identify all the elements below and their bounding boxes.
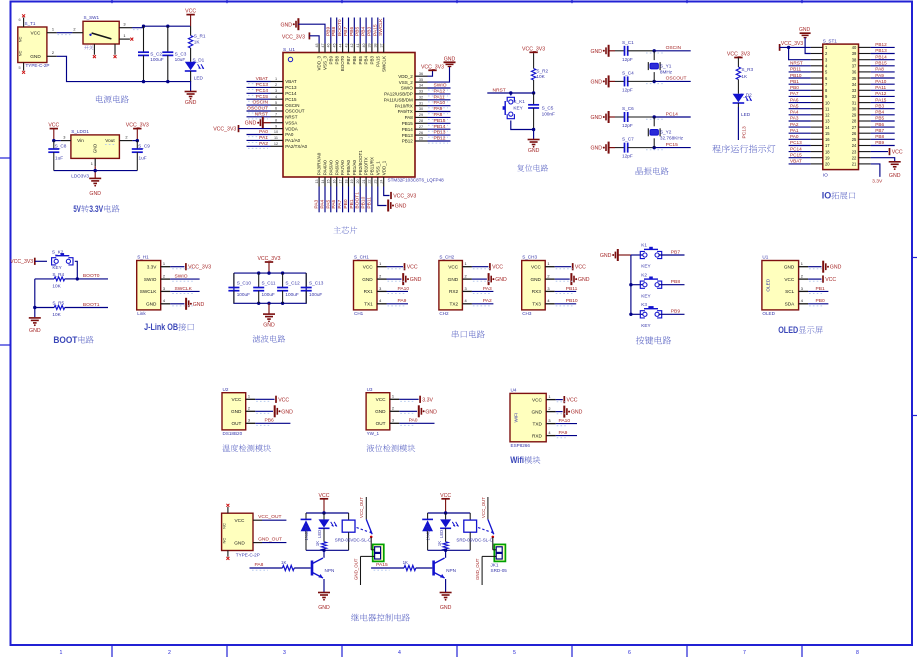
svg-text:43: 43 (344, 44, 348, 48)
svg-text:GND: GND (375, 409, 386, 414)
svg-text:S_Y2: S_Y2 (660, 130, 672, 135)
svg-text:PA9: PA9 (875, 73, 884, 78)
svg-text:PC13: PC13 (256, 82, 269, 88)
svg-text:VDDA: VDDA (285, 126, 298, 131)
svg-text:DS18B20: DS18B20 (223, 431, 243, 436)
svg-text:STM32F103C8T6_LQFP48: STM32F103C8T6_LQFP48 (388, 178, 445, 183)
svg-text:25: 25 (419, 137, 423, 141)
svg-text:PB7: PB7 (343, 26, 349, 36)
svg-text:SWIO: SWIO (144, 277, 157, 282)
svg-text:TX1: TX1 (364, 301, 373, 306)
svg-text:PC13: PC13 (285, 85, 297, 90)
svg-text:TXD: TXD (533, 421, 543, 426)
svg-text:S_C5: S_C5 (542, 105, 554, 110)
svg-text:PB7: PB7 (671, 249, 681, 255)
svg-text:44: 44 (338, 44, 342, 48)
svg-text:2: 2 (73, 27, 75, 32)
svg-text:1K: 1K (281, 560, 286, 565)
svg-text:S_R1: S_R1 (194, 33, 206, 38)
svg-text:PA1: PA1 (790, 128, 799, 133)
svg-text:PA3: PA3 (483, 286, 492, 292)
svg-text:4: 4 (547, 298, 550, 303)
svg-text:PA7/A0: PA7/A0 (340, 160, 345, 175)
svg-text:Link: Link (137, 311, 146, 316)
svg-text:4: 4 (465, 298, 468, 303)
svg-text:VCC: VCC (319, 493, 330, 499)
svg-text:VCC_3V3: VCC_3V3 (126, 123, 149, 129)
svg-text:PB9: PB9 (328, 56, 333, 65)
svg-text:KEY: KEY (641, 293, 651, 298)
svg-text:S_C3: S_C3 (175, 52, 187, 57)
svg-text:VCC: VCC (532, 397, 543, 402)
svg-text:PA8: PA8 (405, 115, 414, 120)
svg-text:26: 26 (419, 131, 423, 135)
svg-text:S_R2: S_R2 (536, 68, 548, 73)
svg-text:KEY: KEY (513, 106, 523, 111)
svg-text:S_C9: S_C9 (138, 143, 150, 148)
svg-text:PC13: PC13 (790, 140, 802, 145)
svg-text:3: 3 (163, 286, 165, 291)
svg-text:10uF: 10uF (175, 57, 186, 62)
svg-text:VCC: VCC (363, 264, 374, 269)
svg-text:7: 7 (275, 113, 277, 117)
svg-text:37: 37 (852, 64, 857, 69)
svg-text:31: 31 (852, 100, 857, 105)
svg-text:3: 3 (123, 22, 125, 27)
svg-text:GND: GND (590, 49, 602, 55)
svg-text:19: 19 (350, 180, 354, 184)
svg-text:PA5: PA5 (790, 103, 799, 108)
svg-text:3.3V: 3.3V (872, 179, 883, 185)
svg-text:OUT: OUT (231, 421, 241, 426)
svg-text:2: 2 (52, 50, 54, 55)
svg-text:3: 3 (465, 286, 467, 291)
svg-text:29: 29 (419, 113, 423, 117)
svg-text:3: 3 (275, 89, 277, 93)
svg-text:NRST: NRST (790, 61, 803, 66)
svg-text:1: 1 (52, 27, 54, 32)
svg-text:PA4: PA4 (790, 110, 799, 115)
svg-text:1: 1 (163, 261, 165, 266)
svg-text:1: 1 (248, 394, 250, 399)
svg-text:VCC: VCC (31, 30, 42, 35)
svg-text:31: 31 (419, 101, 423, 105)
svg-text:VSS_1: VSS_1 (375, 161, 380, 176)
svg-text:5: 5 (513, 650, 516, 656)
svg-text:2: 2 (168, 650, 171, 656)
svg-text:U4: U4 (511, 388, 517, 393)
svg-text:1: 1 (801, 261, 803, 266)
svg-text:PB5: PB5 (358, 56, 363, 65)
svg-text:VBAT: VBAT (256, 76, 268, 82)
svg-text:OSCIN: OSCIN (253, 100, 269, 106)
svg-text:LED: LED (194, 75, 204, 80)
svg-text:PB12: PB12 (402, 139, 414, 144)
svg-text:VCC_3V3: VCC_3V3 (188, 265, 211, 271)
svg-text:PA5: PA5 (325, 199, 331, 208)
svg-text:PB11: PB11 (366, 197, 372, 209)
svg-text:S_H1: S_H1 (137, 255, 149, 260)
svg-text:14: 14 (825, 125, 830, 130)
svg-text:GND: GND (571, 410, 583, 416)
svg-text:VCC_OUT: VCC_OUT (258, 514, 281, 520)
svg-text:S_T1: S_T1 (25, 21, 36, 26)
svg-text:3: 3 (547, 286, 549, 291)
svg-text:VCC: VCC (784, 277, 795, 282)
svg-text:GND: GND (245, 121, 257, 127)
svg-text:1: 1 (91, 161, 93, 166)
svg-text:100nF: 100nF (542, 112, 555, 117)
svg-text:PB15: PB15 (402, 121, 414, 126)
svg-text:3.3V: 3.3V (147, 264, 158, 269)
svg-text:PB11/RX: PB11/RX (370, 157, 375, 175)
svg-text:PA7: PA7 (790, 91, 799, 96)
svg-text:PB6: PB6 (349, 26, 355, 36)
svg-text:RX1: RX1 (364, 289, 374, 294)
svg-text:PB14: PB14 (434, 124, 446, 130)
svg-text:VCC: VCC (531, 264, 542, 269)
svg-text:VCC: VCC (185, 9, 196, 15)
svg-text:PA9/TX: PA9/TX (398, 109, 413, 114)
svg-text:SRD-05VDC-SL-C: SRD-05VDC-SL-C (456, 538, 492, 543)
svg-text:PB8: PB8 (331, 26, 337, 36)
svg-text:VCC: VCC (376, 397, 387, 402)
svg-text:SWCLK: SWCLK (140, 289, 158, 294)
svg-text:VCC: VCC (567, 398, 578, 404)
svg-text:6: 6 (18, 18, 20, 22)
svg-text:PC14: PC14 (666, 111, 679, 117)
svg-text:20: 20 (356, 180, 360, 184)
svg-text:PB4: PB4 (364, 56, 369, 65)
svg-text:PB6: PB6 (352, 56, 357, 65)
svg-text:10K: 10K (536, 74, 545, 79)
svg-text:1K: 1K (194, 40, 201, 45)
svg-text:BOOT: BOOT (53, 335, 77, 346)
svg-text:42: 42 (350, 44, 354, 48)
svg-text:PB11: PB11 (790, 67, 802, 72)
svg-text:13: 13 (825, 119, 830, 124)
svg-text:NPN: NPN (446, 568, 456, 573)
svg-text:4: 4 (379, 298, 382, 303)
svg-text:S_Y1: S_Y1 (660, 63, 672, 68)
svg-text:100uF: 100uF (262, 292, 275, 297)
svg-text:SWCLK: SWCLK (378, 18, 384, 36)
svg-text:38: 38 (374, 44, 378, 48)
svg-text:LDO3V3: LDO3V3 (71, 174, 89, 179)
svg-text:PA3: PA3 (790, 116, 799, 121)
svg-text:PB1: PB1 (349, 199, 355, 209)
svg-text:PB1/A0: PB1/A0 (352, 159, 357, 175)
svg-text:VSS_2: VSS_2 (399, 80, 414, 85)
svg-text:PB10: PB10 (361, 196, 367, 208)
svg-text:1: 1 (392, 394, 394, 399)
svg-text:PA7: PA7 (337, 199, 343, 208)
svg-text:4: 4 (275, 95, 277, 99)
svg-text:PA4: PA4 (320, 199, 326, 208)
svg-text:VCC_OUT: VCC_OUT (481, 497, 486, 518)
svg-text:VCC_3V3: VCC_3V3 (257, 256, 280, 262)
svg-text:PB10: PB10 (790, 73, 802, 78)
svg-text:OSCOUT: OSCOUT (247, 106, 268, 112)
svg-text:46: 46 (327, 44, 331, 48)
svg-text:PA15: PA15 (875, 97, 887, 102)
svg-text:OLED: OLED (778, 325, 798, 336)
svg-text:VCC_3V3: VCC_3V3 (781, 41, 803, 47)
svg-text:GND: GND (784, 264, 795, 269)
svg-text:PA5/A0: PA5/A0 (328, 160, 333, 175)
svg-text:GND: GND (395, 204, 407, 210)
svg-text:39: 39 (368, 44, 372, 48)
svg-text:KEY: KEY (641, 323, 651, 328)
svg-text:PA8: PA8 (255, 562, 264, 568)
svg-text:5: 5 (18, 66, 20, 70)
svg-text:GND: GND (234, 541, 245, 546)
svg-text:S_R3: S_R3 (741, 67, 753, 72)
svg-text:PB7: PB7 (346, 56, 351, 65)
svg-text:S_C6: S_C6 (622, 106, 634, 111)
svg-text:33: 33 (419, 90, 423, 94)
svg-text:2: 2 (379, 273, 381, 278)
svg-text:30: 30 (419, 107, 423, 111)
svg-text:PB5: PB5 (875, 116, 884, 121)
svg-text:TYPE-C-2P: TYPE-C-2P (26, 63, 50, 68)
svg-text:TX3: TX3 (532, 301, 541, 306)
svg-text:1K: 1K (315, 541, 320, 546)
svg-text:34: 34 (419, 84, 423, 88)
svg-text:PB14: PB14 (875, 54, 887, 59)
svg-text:1uF: 1uF (139, 155, 147, 160)
svg-text:GND: GND (410, 277, 422, 283)
svg-text:VCC: VCC (278, 397, 289, 403)
svg-text:U3: U3 (367, 387, 373, 392)
svg-text:14: 14 (321, 180, 325, 184)
svg-text:S_ST1: S_ST1 (823, 39, 837, 44)
svg-text:GND: GND (425, 409, 437, 415)
svg-text:1: 1 (547, 261, 549, 266)
svg-text:GND: GND (89, 191, 101, 197)
svg-text:18: 18 (825, 149, 830, 154)
svg-text:PB12: PB12 (434, 136, 446, 142)
svg-text:6: 6 (628, 650, 631, 656)
svg-text:PA10: PA10 (875, 79, 887, 84)
svg-text:LED: LED (741, 112, 751, 117)
svg-text:PB11: PB11 (566, 286, 578, 292)
svg-text:4: 4 (163, 298, 166, 303)
svg-text:J-Link OB: J-Link OB (144, 322, 178, 333)
svg-text:VCC_3V3: VCC_3V3 (393, 194, 416, 200)
svg-text:PB0/A0: PB0/A0 (346, 159, 351, 175)
svg-text:19: 19 (825, 155, 830, 160)
svg-text:S_R4: S_R4 (52, 272, 64, 277)
svg-text:PA11: PA11 (434, 94, 446, 100)
svg-text:PB3: PB3 (875, 103, 884, 108)
svg-text:Wifi: Wifi (510, 455, 524, 466)
svg-text:1K: 1K (437, 541, 442, 546)
svg-text:VDD_1: VDD_1 (381, 160, 386, 175)
svg-text:S_LDO1: S_LDO1 (71, 129, 89, 134)
svg-text:VCC_3V3: VCC_3V3 (421, 64, 444, 70)
svg-text:GND: GND (280, 22, 292, 28)
svg-text:PB10/TX: PB10/TX (364, 157, 369, 175)
svg-text:PA10: PA10 (398, 286, 410, 292)
svg-text:LED: LED (439, 530, 444, 538)
svg-text:41: 41 (356, 44, 360, 48)
svg-text:NC: NC (222, 523, 227, 529)
svg-text:K3: K3 (641, 302, 647, 307)
svg-text:39: 39 (852, 51, 857, 56)
svg-text:GND: GND (590, 79, 602, 85)
svg-text:PA6: PA6 (790, 97, 799, 102)
svg-text:S_C10: S_C10 (237, 280, 252, 285)
svg-text:1K: 1K (403, 560, 408, 565)
svg-text:GND: GND (281, 409, 293, 415)
svg-text:GND: GND (440, 605, 452, 611)
svg-text:GND: GND (362, 277, 373, 282)
svg-text:S_C13: S_C13 (309, 280, 324, 285)
svg-text:GND: GND (263, 323, 275, 329)
svg-text:3.3V: 3.3V (422, 397, 433, 403)
svg-text:PB12: PB12 (875, 42, 887, 47)
svg-text:100uF: 100uF (150, 57, 163, 62)
svg-text:4: 4 (398, 650, 401, 656)
svg-text:12pF: 12pF (622, 123, 633, 128)
svg-text:PC15: PC15 (256, 94, 269, 100)
svg-text:PB8: PB8 (671, 279, 681, 285)
svg-text:8MHz: 8MHz (660, 70, 673, 75)
svg-text:VCC: VCC (492, 265, 503, 271)
svg-text:27: 27 (419, 125, 423, 129)
svg-text:27: 27 (852, 125, 857, 130)
svg-text:PA15: PA15 (375, 56, 380, 67)
svg-text:S_C4: S_C4 (622, 70, 634, 75)
svg-text:21: 21 (852, 162, 857, 167)
svg-text:12: 12 (825, 113, 830, 118)
svg-text:VDD_3: VDD_3 (317, 56, 322, 71)
svg-text:VCC: VCC (448, 264, 459, 269)
svg-text:NC: NC (222, 538, 227, 544)
svg-text:IO: IO (822, 191, 832, 202)
svg-text:PB15: PB15 (434, 118, 446, 124)
svg-text:7: 7 (743, 650, 746, 656)
svg-text:PA10: PA10 (434, 100, 446, 106)
svg-text:PC13: PC13 (741, 126, 747, 139)
svg-text:VCC: VCC (407, 265, 418, 271)
svg-text:VCC_OUT: VCC_OUT (359, 497, 364, 518)
svg-text:PA2: PA2 (259, 141, 268, 147)
svg-text:PB13: PB13 (875, 48, 887, 53)
svg-text:VCC_3V3: VCC_3V3 (522, 46, 545, 52)
svg-text:BOOT1: BOOT1 (83, 302, 100, 308)
svg-text:OLED: OLED (765, 278, 770, 291)
svg-text:OLED: OLED (762, 311, 775, 316)
svg-text:OSCIN: OSCIN (285, 103, 299, 108)
svg-text:1: 1 (123, 33, 125, 38)
svg-text:12pF: 12pF (622, 154, 633, 159)
svg-text:GND: GND (830, 265, 842, 271)
svg-text:17: 17 (338, 180, 342, 184)
svg-text:PA8: PA8 (434, 112, 443, 118)
svg-text:YW_1: YW_1 (367, 431, 380, 436)
svg-text:NC: NC (18, 51, 23, 57)
svg-text:RX2: RX2 (449, 289, 459, 294)
svg-text:S_D1: S_D1 (193, 58, 205, 63)
svg-text:SCL: SCL (785, 289, 795, 294)
svg-text:PA3: PA3 (314, 199, 320, 208)
svg-text:VCC_3V3: VCC_3V3 (282, 34, 305, 40)
svg-text:JK1: JK1 (491, 562, 499, 567)
svg-text:VCC: VCC (235, 518, 246, 523)
svg-text:PC14: PC14 (256, 88, 269, 94)
svg-text:PA0: PA0 (790, 134, 799, 139)
svg-text:S_K2: S_K2 (52, 249, 64, 254)
svg-text:21: 21 (362, 180, 366, 184)
svg-text:OUT: OUT (376, 421, 386, 426)
svg-text:3: 3 (248, 418, 250, 423)
svg-text:PB13: PB13 (402, 133, 414, 138)
svg-text:5V: 5V (73, 204, 81, 215)
svg-text:3: 3 (801, 286, 803, 291)
svg-text:PA11/USB/DM: PA11/USB/DM (384, 98, 413, 103)
svg-text:32: 32 (852, 94, 857, 99)
svg-text:1uF: 1uF (55, 155, 63, 160)
svg-text:Vin: Vin (77, 138, 84, 143)
svg-text:PC14: PC14 (790, 146, 802, 151)
svg-text:GND: GND (193, 302, 205, 308)
svg-text:PB9: PB9 (875, 140, 884, 145)
svg-text:SWIO: SWIO (401, 86, 413, 91)
svg-text:S_K1: S_K1 (513, 99, 525, 104)
svg-text:22: 22 (368, 180, 372, 184)
svg-text:28: 28 (419, 119, 423, 123)
svg-text:PB14: PB14 (402, 127, 414, 132)
svg-text:30: 30 (852, 106, 857, 111)
svg-text:10K: 10K (52, 312, 61, 317)
svg-text:SRD-05VDC-SL-C: SRD-05VDC-SL-C (335, 538, 371, 543)
svg-text:45: 45 (333, 44, 337, 48)
svg-text:PB13: PB13 (434, 130, 446, 136)
svg-text:S_CH3: S_CH3 (522, 255, 537, 260)
svg-text:1: 1 (465, 261, 467, 266)
svg-text:2: 2 (275, 83, 277, 87)
svg-text:U2: U2 (223, 387, 229, 392)
svg-text:38: 38 (852, 57, 857, 62)
svg-text:PB9: PB9 (325, 26, 331, 36)
svg-text:VCC: VCC (825, 277, 836, 283)
svg-text:PB2/BOOT1: PB2/BOOT1 (358, 150, 363, 176)
svg-text:PA12: PA12 (875, 91, 887, 96)
svg-text:2: 2 (548, 406, 550, 411)
svg-text:8: 8 (275, 118, 277, 122)
svg-text:6: 6 (275, 107, 277, 111)
svg-text:CH1: CH1 (354, 311, 364, 316)
svg-text:GND: GND (93, 144, 98, 153)
svg-text:GND_OUT: GND_OUT (258, 536, 282, 542)
svg-text:3.3V: 3.3V (89, 204, 103, 215)
svg-text:GND: GND (185, 100, 197, 106)
svg-text:K2: K2 (641, 272, 647, 277)
svg-text:S_C11: S_C11 (262, 280, 276, 285)
svg-text:PB5: PB5 (355, 26, 361, 36)
svg-text:KEY: KEY (52, 265, 62, 270)
svg-text:5: 5 (275, 101, 277, 105)
svg-text:VCC: VCC (231, 397, 242, 402)
svg-text:32.768KHz: 32.768KHz (660, 136, 684, 141)
svg-text:PA6: PA6 (331, 199, 337, 208)
svg-text:24: 24 (852, 143, 857, 148)
svg-text:S_C1: S_C1 (622, 40, 634, 45)
svg-text:48: 48 (315, 44, 319, 48)
svg-text:PA0: PA0 (259, 129, 268, 135)
